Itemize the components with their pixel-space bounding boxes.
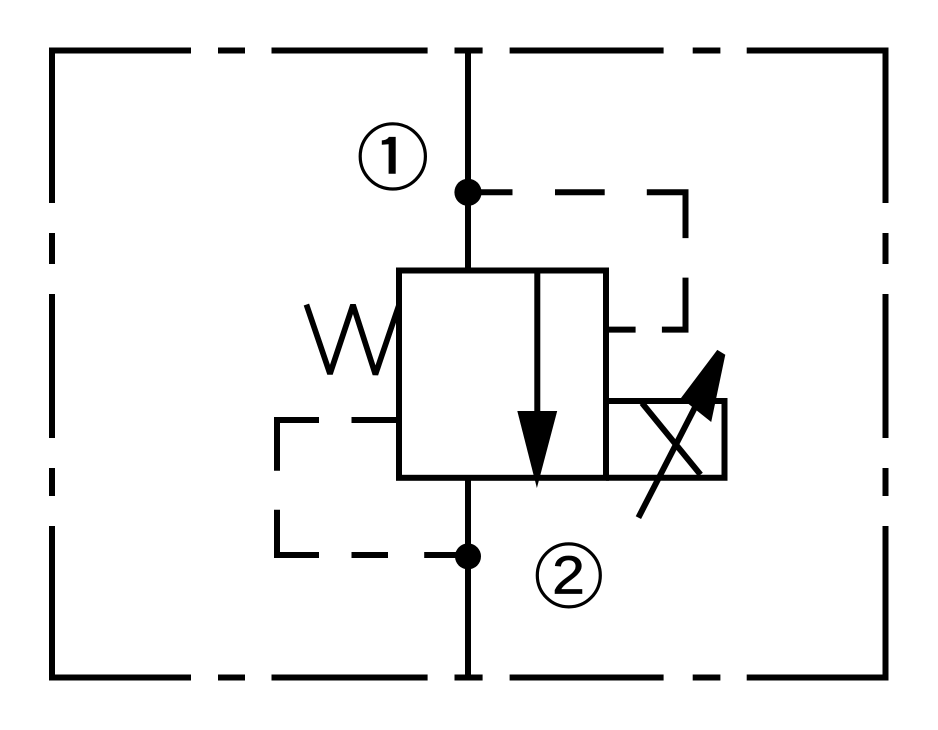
wire: port 1 vertical line from top boundary to valve box — [465, 48, 471, 271]
valve body boundary: bottom-right corner — [747, 526, 886, 678]
solenoid cross diagonal — [642, 403, 701, 475]
valve body boundary: left edge middle dash — [49, 294, 55, 438]
valve body boundary: left edge dot 1 — [49, 233, 55, 264]
svg-text:2: 2 — [552, 545, 585, 605]
wire: port 2 vertical line from valve box to bottom boundary — [465, 478, 471, 681]
pilot line (dashed) left: corner dash bottom — [277, 510, 319, 555]
node: junction dot at port 2 — [455, 543, 481, 569]
valve body boundary: right edge dot 2 — [883, 468, 889, 496]
valve body boundary: bottom edge dot 1 — [218, 675, 245, 681]
pilot line (dashed) left: dash 3 — [352, 552, 389, 558]
flow path arrow: shaft inside valve box — [534, 271, 540, 421]
proportional adjustment arrow: shaft — [638, 404, 697, 518]
solenoid coil box — [606, 401, 725, 478]
proportional adjustment arrow: head — [681, 350, 725, 422]
valve body boundary: top edge dot 3 — [693, 48, 721, 54]
pilot line (dashed) right: corner dash bottom — [662, 278, 686, 330]
port label 1: digit drawn as path — [382, 137, 396, 174]
valve body boundary: top edge dot 2 (at port 1 line crossing) — [455, 48, 483, 54]
valve body boundary: left edge dot 2 — [49, 468, 55, 496]
valve body boundary: bottom edge dot 2 (at port 2 line crossing) — [455, 675, 483, 681]
spring: zigzag on left of valve box — [306, 305, 399, 375]
pilot line (dashed) right: segment from node 1 — [468, 189, 513, 195]
flow path arrow: head — [517, 411, 557, 488]
pilot line (dashed) left: dash from valve box — [352, 417, 400, 423]
pilot line (dashed) left: corner dash top — [277, 420, 319, 471]
pilot line (dashed) right: dash 2 — [555, 189, 605, 195]
valve body boundary: right edge dot 1 — [883, 233, 889, 264]
node: junction dot at port 1 — [454, 179, 481, 206]
valve body boundary: top edge long dash — [272, 48, 428, 54]
valve body boundary: dash-dot enclosure top-left corner — [52, 51, 191, 204]
port label 2: circle — [537, 544, 600, 607]
valve envelope: main valve box — [399, 271, 606, 478]
port label 1: circle — [360, 124, 425, 189]
pilot line (dashed) right: dash into valve box — [606, 327, 636, 333]
pilot line (dashed) right: corner dash top — [647, 192, 686, 238]
valve body boundary: right edge middle dash — [883, 294, 889, 438]
valve body boundary: top-right corner — [747, 51, 886, 204]
valve body boundary: bottom edge dot 3 — [693, 675, 721, 681]
valve body boundary: bottom edge long dash 2 — [510, 675, 664, 681]
valve body boundary: bottom-left corner — [52, 526, 191, 678]
valve body boundary: top edge long dash 2 — [510, 48, 664, 54]
valve body boundary: top edge dot 1 — [218, 48, 245, 54]
valve body boundary: bottom edge long dash — [272, 675, 428, 681]
pilot line (dashed) left: dash into node 2 — [424, 552, 457, 558]
